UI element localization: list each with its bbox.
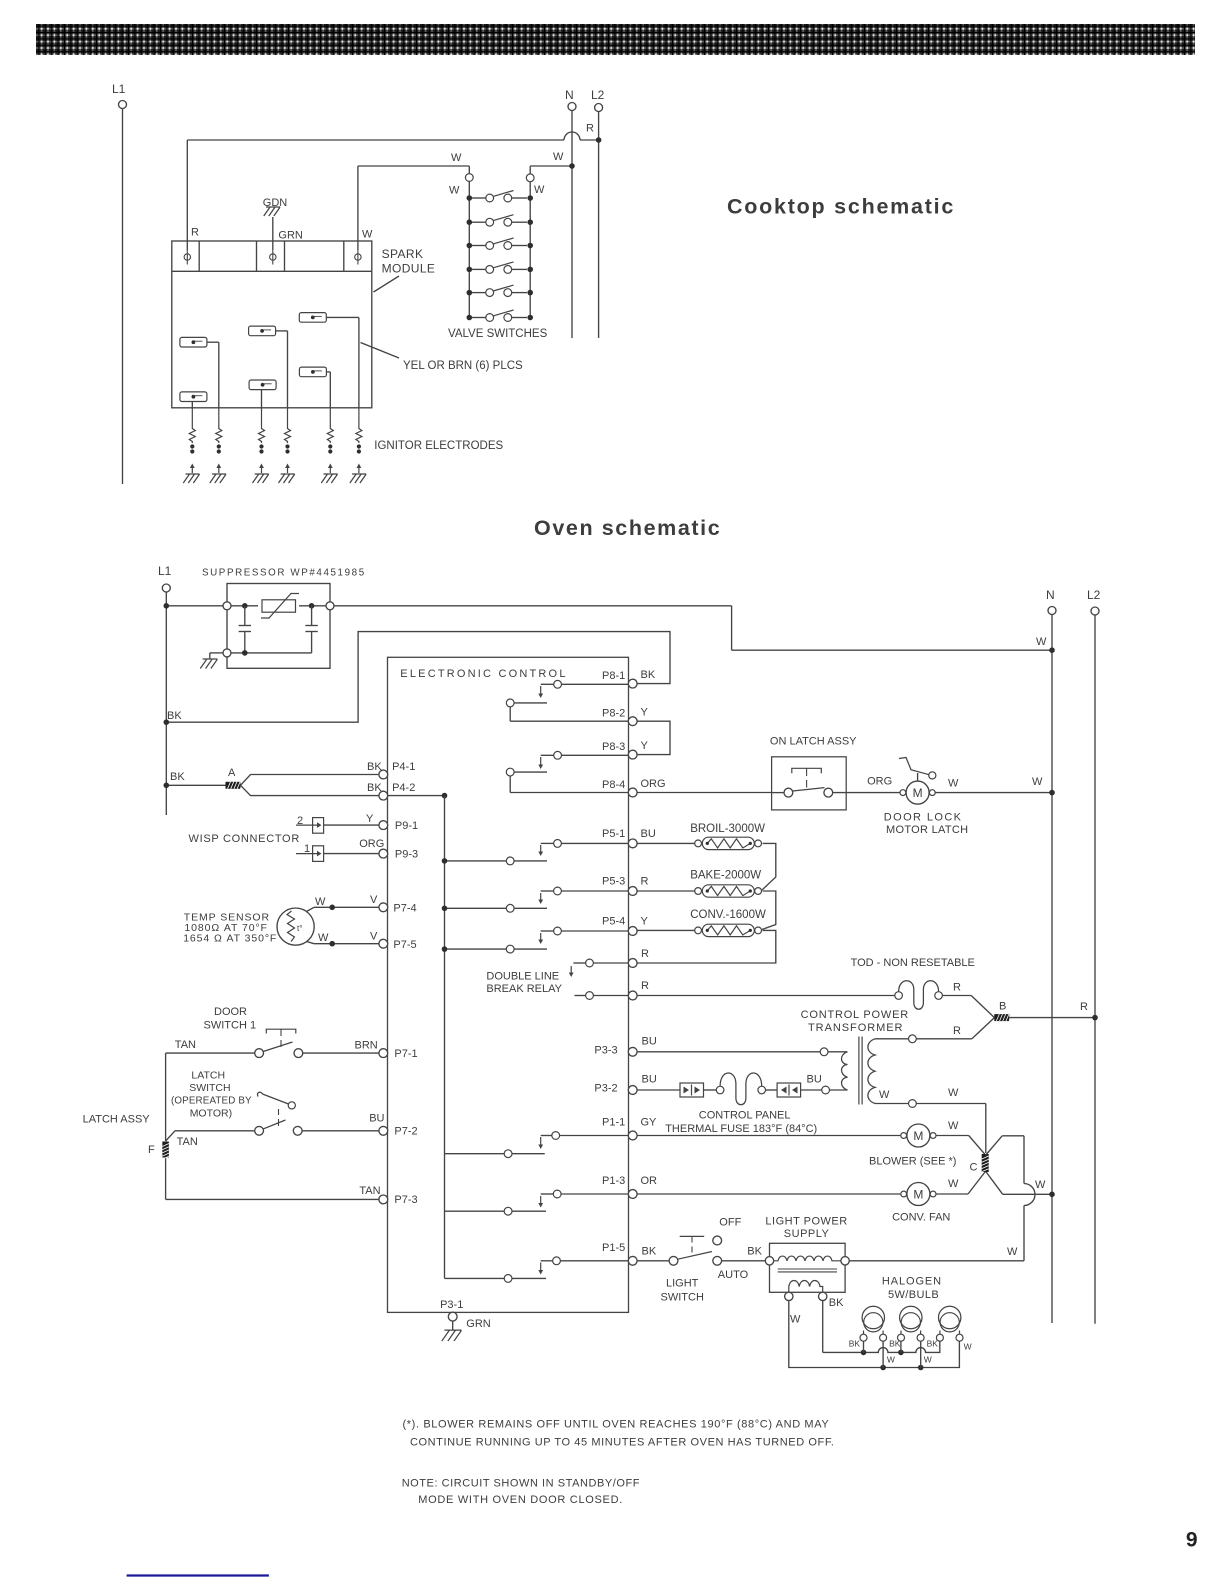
- svg-text:(*). BLOWER REMAINS OFF UNTIL: (*). BLOWER REMAINS OFF UNTIL OVEN REACH…: [403, 1419, 830, 1431]
- svg-text:P7-3: P7-3: [394, 1194, 417, 1206]
- svg-text:P1-1: P1-1: [602, 1117, 625, 1129]
- svg-text:LIGHT POWER: LIGHT POWER: [765, 1215, 847, 1227]
- svg-text:W: W: [534, 184, 545, 196]
- wire BK bus to halogen bulbs (hops over W drops): [823, 1301, 940, 1356]
- svg-text:CONTROL PANEL: CONTROL PANEL: [699, 1110, 791, 1122]
- valve switch 5: [467, 285, 534, 296]
- connector P3-1 with ground: [440, 1299, 491, 1341]
- ignitor electrode 5: [321, 408, 337, 483]
- terminal L1 (oven): [158, 564, 172, 815]
- ignitor electrode 1: [183, 408, 199, 483]
- wire B to transformer secondary (R): [875, 1018, 994, 1043]
- svg-text:P1-5: P1-5: [602, 1242, 625, 1254]
- connector P8-4: [510, 778, 665, 797]
- svg-text:CONTROL POWER: CONTROL POWER: [801, 1009, 909, 1021]
- door switch 1 labels: [175, 1006, 378, 1052]
- temp sensor: [277, 905, 379, 947]
- svg-text:TAN: TAN: [175, 1039, 196, 1051]
- connector P1-1: [602, 1117, 657, 1140]
- svg-text:SWITCH: SWITCH: [661, 1291, 704, 1303]
- svg-text:MODULE: MODULE: [382, 262, 436, 276]
- wire P3-3 to transformer primary: [637, 1048, 847, 1056]
- svg-text:OR: OR: [641, 1175, 658, 1187]
- svg-text:M: M: [913, 1188, 923, 1202]
- svg-text:BROIL-3000W: BROIL-3000W: [690, 823, 765, 835]
- electronic control box: [388, 657, 629, 1312]
- svg-text:SUPPLY: SUPPLY: [784, 1228, 830, 1240]
- svg-text:OFF: OFF: [719, 1217, 741, 1229]
- svg-text:BREAK RELAY: BREAK RELAY: [486, 983, 562, 995]
- svg-text:ORG: ORG: [867, 776, 892, 788]
- svg-text:W: W: [948, 778, 959, 790]
- svg-text:BK: BK: [927, 1338, 939, 1348]
- bake element 2000W: [637, 870, 761, 898]
- svg-text:ORG: ORG: [359, 838, 384, 850]
- labels CONTROL PANEL THERMAL FUSE: [665, 1110, 817, 1135]
- halogen bulb 2: [889, 1306, 924, 1348]
- svg-text:W: W: [315, 896, 326, 908]
- svg-text:P7-2: P7-2: [394, 1126, 417, 1138]
- svg-text:TRANSFORMER: TRANSFORMER: [808, 1022, 903, 1034]
- connector P4-1: [367, 761, 415, 779]
- svg-text:P7-4: P7-4: [393, 903, 416, 915]
- connector P7-4: [379, 903, 417, 915]
- svg-text:5W/BULB: 5W/BULB: [888, 1289, 939, 1301]
- svg-text:W: W: [362, 229, 373, 241]
- svg-text:C: C: [970, 1162, 978, 1174]
- svg-text:N: N: [565, 88, 574, 102]
- wisp connector pin 1: [296, 838, 384, 861]
- label YEL OR BRN (6) PLCS: [361, 343, 524, 373]
- node R junction on L2: [1092, 1015, 1098, 1021]
- svg-text:W: W: [948, 1178, 959, 1190]
- svg-text:W: W: [948, 1087, 959, 1099]
- convection fan motor: [637, 1178, 968, 1224]
- svg-text:AUTO: AUTO: [718, 1269, 749, 1281]
- svg-text:SWITCH 1: SWITCH 1: [204, 1020, 257, 1032]
- svg-text:BK: BK: [641, 669, 656, 681]
- valve switch 1: [467, 191, 534, 202]
- wire TOD to splice B: [942, 982, 994, 1018]
- svg-text:V: V: [370, 931, 378, 943]
- svg-text:Y: Y: [641, 707, 649, 719]
- wire conv fan to splice C to return: [968, 1136, 1024, 1194]
- svg-text:L2: L2: [1087, 588, 1101, 602]
- splice F: [148, 1142, 169, 1160]
- wire broil to bake right side: [762, 843, 776, 890]
- node W junction on N: [1049, 647, 1055, 653]
- wisp connector pin 2: [296, 813, 379, 833]
- svg-text:BLOWER (SEE *): BLOWER (SEE *): [869, 1156, 956, 1168]
- svg-text:TOD - NON RESETABLE: TOD - NON RESETABLE: [851, 957, 975, 969]
- node L1 top junction: [164, 603, 170, 609]
- svg-text:CONV.-1600W: CONV.-1600W: [690, 909, 766, 921]
- connector P7-2: [379, 1126, 418, 1138]
- ignitor coil 3: [180, 337, 219, 407]
- wire BK: P8-1 return to L1: [166, 632, 670, 723]
- spark module terminal GRN: [270, 230, 303, 265]
- node W junction on N (door lock): [1049, 790, 1055, 796]
- node R junction on L2: [596, 137, 602, 143]
- svg-text:W: W: [948, 1120, 959, 1132]
- svg-text:t°: t°: [297, 924, 302, 933]
- wire bake to conv right side: [762, 891, 776, 930]
- relay contact P1-5: [445, 1257, 629, 1282]
- svg-text:V: V: [370, 894, 378, 906]
- svg-text:M: M: [913, 1129, 923, 1143]
- wire blower to splice C to N: [936, 1136, 1052, 1195]
- relay contact double line break: [569, 959, 629, 999]
- wire W: supply to conv-fan return corner: [849, 1260, 1024, 1262]
- svg-text:DOOR: DOOR: [214, 1006, 247, 1018]
- svg-text:BK: BK: [367, 782, 382, 794]
- svg-text:W: W: [1036, 636, 1047, 648]
- svg-text:R: R: [641, 948, 649, 960]
- connector P7-5: [379, 939, 417, 951]
- light switch labels: [642, 1217, 763, 1304]
- svg-text:LATCH: LATCH: [191, 1069, 225, 1081]
- splice C: [970, 1154, 989, 1174]
- light switch: [637, 1236, 767, 1265]
- splice B: [994, 1001, 1012, 1022]
- svg-text:L1: L1: [112, 82, 126, 96]
- svg-text:W: W: [924, 1354, 932, 1364]
- svg-text:MOTOR): MOTOR): [190, 1107, 232, 1119]
- svg-text:LIGHT: LIGHT: [666, 1278, 699, 1290]
- valve switch 4: [467, 262, 534, 273]
- svg-text:(OPEREATED BY: (OPEREATED BY: [171, 1096, 252, 1107]
- svg-text:W: W: [790, 1314, 801, 1326]
- relay contact P5-4: [442, 927, 629, 953]
- latch assy rail: [165, 1053, 167, 1199]
- svg-text:A: A: [228, 767, 236, 779]
- TOD non-resetable thermal cutout: [851, 957, 975, 1009]
- svg-text:NOTE: CIRCUIT SHOWN IN STANDBY: NOTE: CIRCUIT SHOWN IN STANDBY/OFF: [402, 1478, 640, 1490]
- svg-text:GRN: GRN: [278, 230, 303, 242]
- svg-text:P3-3: P3-3: [594, 1045, 617, 1057]
- connector P5-4: [602, 916, 649, 936]
- svg-text:Cooktop schematic: Cooktop schematic: [727, 195, 955, 219]
- svg-text:LATCH ASSY: LATCH ASSY: [83, 1113, 151, 1125]
- svg-text:BK: BK: [747, 1246, 762, 1258]
- svg-text:W: W: [964, 1342, 972, 1352]
- connector P8-3: [602, 741, 637, 759]
- svg-text:P5-1: P5-1: [602, 828, 625, 840]
- node A junction on L1: [164, 783, 170, 789]
- svg-text:MOTOR LATCH: MOTOR LATCH: [886, 824, 968, 836]
- halogen bulb 3: [927, 1306, 972, 1351]
- svg-text:F: F: [148, 1144, 155, 1156]
- connector element return: [628, 959, 637, 968]
- svg-text:BK: BK: [849, 1338, 861, 1348]
- terminal L1 (cooktop): [112, 82, 127, 484]
- svg-text:DOUBLE LINE: DOUBLE LINE: [486, 971, 559, 983]
- svg-text:W: W: [553, 151, 564, 163]
- valve switch 3: [467, 238, 534, 249]
- svg-text:BU: BU: [641, 828, 656, 840]
- svg-text:P8-1: P8-1: [602, 670, 625, 682]
- label SPARK MODULE: [374, 247, 436, 292]
- internal common bus: [444, 796, 446, 1279]
- light power supply: [765, 1243, 849, 1300]
- svg-text:P4-1: P4-1: [392, 761, 415, 773]
- svg-text:9: 9: [1186, 1529, 1198, 1552]
- svg-text:P3-2: P3-2: [594, 1083, 617, 1095]
- node bus top junction: [442, 793, 448, 799]
- connector P3-2: [594, 1074, 656, 1095]
- svg-text:R: R: [191, 227, 199, 239]
- svg-text:THERMAL FUSE 183°F (84°C): THERMAL FUSE 183°F (84°C): [665, 1123, 817, 1135]
- svg-text:R: R: [953, 982, 961, 994]
- svg-text:P8-3: P8-3: [602, 741, 625, 753]
- wire B to L2: [1009, 1001, 1095, 1018]
- labels CONTROL POWER TRANSFORMER: [801, 1009, 909, 1034]
- connector P1-5: [602, 1242, 637, 1265]
- svg-text:BU: BU: [642, 1074, 657, 1086]
- wire element return R: [637, 930, 776, 963]
- svg-text:R: R: [586, 123, 594, 135]
- wire W: transformer secondary to splice C: [875, 1087, 986, 1153]
- svg-text:W: W: [449, 185, 460, 197]
- labels HALOGEN 5W/BULB: [882, 1276, 942, 1302]
- relay contact P1-3: [445, 1190, 629, 1215]
- svg-text:CONTINUE RUNNING UP TO 45 MINU: CONTINUE RUNNING UP TO 45 MINUTES AFTER …: [410, 1437, 835, 1449]
- broil element 3000W: [637, 823, 765, 850]
- svg-text:GY: GY: [641, 1117, 658, 1129]
- relay contact P8-3/P8-4: [506, 751, 628, 792]
- svg-text:P8-4: P8-4: [602, 779, 625, 791]
- svg-text:1654 Ω AT 350°F: 1654 Ω AT 350°F: [183, 933, 277, 945]
- control panel thermal fuse (right): [766, 1074, 848, 1098]
- svg-text:BU: BU: [369, 1113, 384, 1125]
- terminal N (oven): [1046, 588, 1056, 1323]
- svg-text:P8-2: P8-2: [602, 708, 625, 720]
- wire W: right valve rail to N: [530, 151, 572, 174]
- splice A and BK feed wires: [166, 767, 379, 796]
- blower motor: [637, 1120, 959, 1168]
- door switch 1: [166, 1029, 379, 1057]
- terminal L2 (oven): [1087, 588, 1101, 1324]
- svg-text:L2: L2: [591, 88, 605, 102]
- svg-text:TAN: TAN: [359, 1185, 380, 1197]
- valve switches right rail: [526, 174, 545, 318]
- svg-text:P9-1: P9-1: [395, 820, 418, 832]
- svg-text:YEL OR BRN (6) PLCS: YEL OR BRN (6) PLCS: [403, 360, 523, 372]
- wire TAN: latch rail to P7-3: [166, 1185, 381, 1199]
- convection element 1600W: [637, 909, 766, 937]
- valve switch 2: [467, 215, 534, 226]
- door lock motor latch: [899, 758, 1052, 805]
- svg-text:R: R: [1080, 1001, 1088, 1013]
- svg-text:GRN: GRN: [466, 1318, 491, 1330]
- GDN ground above GRN terminal: [263, 197, 288, 250]
- svg-text:W: W: [1035, 1179, 1046, 1191]
- connector P9-3: [379, 849, 418, 861]
- wire to TOD: [637, 995, 895, 997]
- connector P7-1: [379, 1048, 418, 1060]
- relay contact P5-3: [442, 887, 629, 912]
- svg-text:P4-2: P4-2: [392, 782, 415, 794]
- light power supply labels: [765, 1215, 847, 1325]
- svg-text:BK: BK: [889, 1338, 901, 1348]
- terminal L2 (cooktop): [591, 88, 605, 338]
- svg-text:W: W: [887, 1354, 895, 1364]
- latch switch labels: [171, 1069, 385, 1148]
- svg-text:ORG: ORG: [641, 778, 666, 790]
- svg-text:WISP CONNECTOR: WISP CONNECTOR: [189, 833, 300, 845]
- svg-text:ON LATCH ASSY: ON LATCH ASSY: [770, 736, 857, 748]
- wire ORG: P8-4 to door switch 2: [637, 792, 772, 794]
- ignitor coil 6: [180, 392, 207, 408]
- svg-text:W: W: [1007, 1246, 1018, 1258]
- footer rule: [127, 1574, 269, 1576]
- ignitor electrode 3: [252, 408, 268, 483]
- svg-text:SPARK: SPARK: [382, 247, 424, 261]
- wire R: spark module R terminal to L2, hop over N: [187, 123, 598, 251]
- ignitor electrode 2: [210, 408, 226, 483]
- door switch 2: [772, 757, 901, 810]
- ignitor coil 2: [249, 326, 288, 408]
- svg-text:W: W: [318, 932, 329, 944]
- svg-text:BK: BK: [829, 1297, 844, 1309]
- connector P3-3: [594, 1036, 656, 1057]
- latch switch: [166, 1092, 379, 1141]
- svg-text:CONV. FAN: CONV. FAN: [892, 1212, 950, 1224]
- svg-text:DOOR LOCK: DOOR LOCK: [884, 812, 963, 824]
- svg-text:W: W: [1032, 776, 1043, 788]
- connector P8-2: [510, 707, 648, 726]
- suppressor WP#4451985: [200, 584, 334, 669]
- connector P9-1: [379, 820, 418, 832]
- connector P1-3: [602, 1175, 657, 1198]
- spark module box: [172, 241, 372, 408]
- connector P5-3: [602, 876, 649, 896]
- svg-text:W: W: [879, 1089, 890, 1101]
- connector P7-3: [379, 1194, 418, 1206]
- node W junction on N: [569, 163, 575, 169]
- wire W: spark module W terminal to left valve rail: [358, 152, 469, 250]
- relay contact P1-1: [445, 1132, 629, 1158]
- relay contact P5-1: [442, 840, 629, 865]
- ignitor electrode 6: [350, 408, 366, 483]
- ignitor coil 4: [299, 367, 330, 408]
- svg-text:B: B: [999, 1001, 1006, 1013]
- svg-text:N: N: [1046, 588, 1055, 602]
- wire P4-2 to internal bus: [388, 795, 445, 797]
- svg-text:ELECTRONIC CONTROL: ELECTRONIC CONTROL: [400, 668, 567, 680]
- svg-text:R: R: [641, 980, 649, 992]
- svg-text:P9-3: P9-3: [395, 849, 418, 861]
- wire Y: P8-2 to P8-3 bracket: [637, 721, 670, 754]
- svg-text:Y: Y: [366, 813, 374, 825]
- svg-text:IGNITOR ELECTRODES: IGNITOR ELECTRODES: [374, 440, 503, 452]
- control power transformer: [842, 1037, 876, 1105]
- valve switch 6: [467, 310, 534, 321]
- svg-text:W: W: [451, 152, 462, 164]
- svg-text:P7-1: P7-1: [394, 1048, 417, 1060]
- svg-text:BU: BU: [642, 1036, 657, 1048]
- svg-text:L1: L1: [158, 564, 172, 578]
- svg-text:BK: BK: [642, 1246, 657, 1258]
- door lock labels: [884, 776, 1043, 836]
- svg-text:R: R: [953, 1025, 961, 1037]
- ignitor electrode 4: [278, 408, 294, 483]
- ignitor coil 1: [299, 313, 359, 408]
- temp sensor labels: [183, 894, 378, 945]
- svg-text:Oven schematic: Oven schematic: [534, 516, 721, 540]
- connector P8-1: [602, 669, 656, 688]
- svg-text:R: R: [641, 876, 649, 888]
- svg-text:P5-3: P5-3: [602, 876, 625, 888]
- valve switches left rail: [449, 166, 473, 318]
- spark module terminal R: [184, 227, 199, 265]
- svg-text:BRN: BRN: [355, 1040, 378, 1052]
- label DOUBLE LINE BREAK RELAY: [486, 971, 562, 995]
- svg-text:M: M: [913, 786, 923, 800]
- svg-text:P3-1: P3-1: [440, 1299, 463, 1311]
- ignitor coil 5: [249, 380, 276, 408]
- spark module terminal W: [355, 229, 373, 265]
- svg-text:SWITCH: SWITCH: [189, 1082, 230, 1094]
- node W junction on N: [1049, 1192, 1055, 1198]
- svg-text:Y: Y: [641, 916, 649, 928]
- wire W bus to halogen bulbs: [789, 1301, 960, 1371]
- svg-text:MODE WITH OVEN DOOR CLOSED.: MODE WITH OVEN DOOR CLOSED.: [418, 1494, 623, 1506]
- conv fan return vertical with hop: [1007, 1136, 1035, 1261]
- svg-text:VALVE SWITCHES: VALVE SWITCHES: [448, 328, 548, 340]
- halogen bulb 1: [849, 1306, 887, 1348]
- svg-text:BK: BK: [170, 771, 185, 783]
- svg-text:HALOGEN: HALOGEN: [882, 1276, 942, 1288]
- svg-text:BU: BU: [807, 1074, 822, 1086]
- svg-text:SUPPRESSOR WP#4451985: SUPPRESSOR WP#4451985: [202, 568, 366, 579]
- svg-text:P7-5: P7-5: [393, 939, 416, 951]
- control panel thermal fuse (left): [637, 1083, 716, 1097]
- node BK junction on L1: [164, 719, 170, 725]
- connector P4-2: [367, 782, 415, 800]
- svg-text:BK: BK: [367, 761, 382, 773]
- wire L1 to N top run: [166, 606, 1052, 650]
- connector TOD feed: [628, 980, 649, 1000]
- svg-text:P5-4: P5-4: [602, 916, 625, 928]
- svg-text:Y: Y: [641, 740, 649, 752]
- connector P5-1: [602, 828, 656, 848]
- svg-text:P1-3: P1-3: [602, 1175, 625, 1187]
- svg-text:TAN: TAN: [177, 1136, 198, 1148]
- terminal N (cooktop): [565, 88, 576, 338]
- relay contact P8-1/P8-2: [506, 680, 628, 721]
- svg-text:BK: BK: [167, 710, 182, 722]
- control panel thermal cutout loop: [716, 1086, 724, 1094]
- svg-text:BAKE-2000W: BAKE-2000W: [690, 870, 761, 882]
